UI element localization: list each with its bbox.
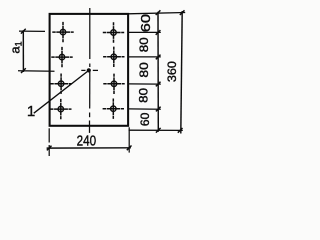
svg-text:240: 240	[77, 132, 97, 149]
a1 tick top	[21, 29, 26, 34]
svg-text:1: 1	[27, 103, 35, 120]
a1 tick bottom	[21, 68, 26, 73]
hole row3 left	[50, 74, 71, 94]
bottom dimension line	[47, 147, 131, 149]
hole row3 right	[103, 74, 124, 94]
row4 extension	[129, 108, 161, 110]
row2 extension	[129, 56, 161, 58]
right extension	[128, 127, 130, 152]
centroid dot	[87, 68, 91, 72]
hole row1 left	[52, 22, 73, 42]
bottom ticks	[47, 146, 132, 151]
a1 dimension line	[22, 30, 24, 72]
svg-text:60: 60	[139, 112, 152, 126]
inner dimension line (60/80/80/80/60)	[157, 12, 159, 132]
svg-text:80: 80	[138, 62, 151, 77]
hole row2 right	[103, 47, 124, 67]
outer ticks	[178, 10, 185, 132]
right dimension chain: top extension	[129, 13, 186, 14]
plate outline	[50, 14, 129, 126]
row1 extension	[129, 31, 161, 33]
hole row2 left	[51, 47, 72, 67]
svg-text:80: 80	[138, 37, 151, 52]
svg-text:60: 60	[139, 14, 153, 32]
a1 dimension: top extension line (row1)	[19, 30, 45, 32]
bottom extension	[129, 129, 183, 131]
hole row1 right	[103, 22, 124, 42]
holes: circle + crosshair	[50, 22, 125, 119]
inner chain ticks	[156, 10, 161, 132]
outer dimension line (360)	[181, 11, 182, 134]
svg-text:80: 80	[137, 88, 150, 103]
row3 extension	[129, 83, 161, 85]
hole row4 right	[103, 99, 124, 119]
hole row4 left	[50, 99, 71, 119]
svg-text:360: 360	[165, 61, 179, 82]
bottom dimension 240: left extension	[49, 127, 129, 156]
leader line to label 1	[34, 70, 89, 113]
vertical centerline (dash-dot)	[89, 8, 91, 133]
horizontal centerline / a1 lower extension	[18, 69, 98, 72]
